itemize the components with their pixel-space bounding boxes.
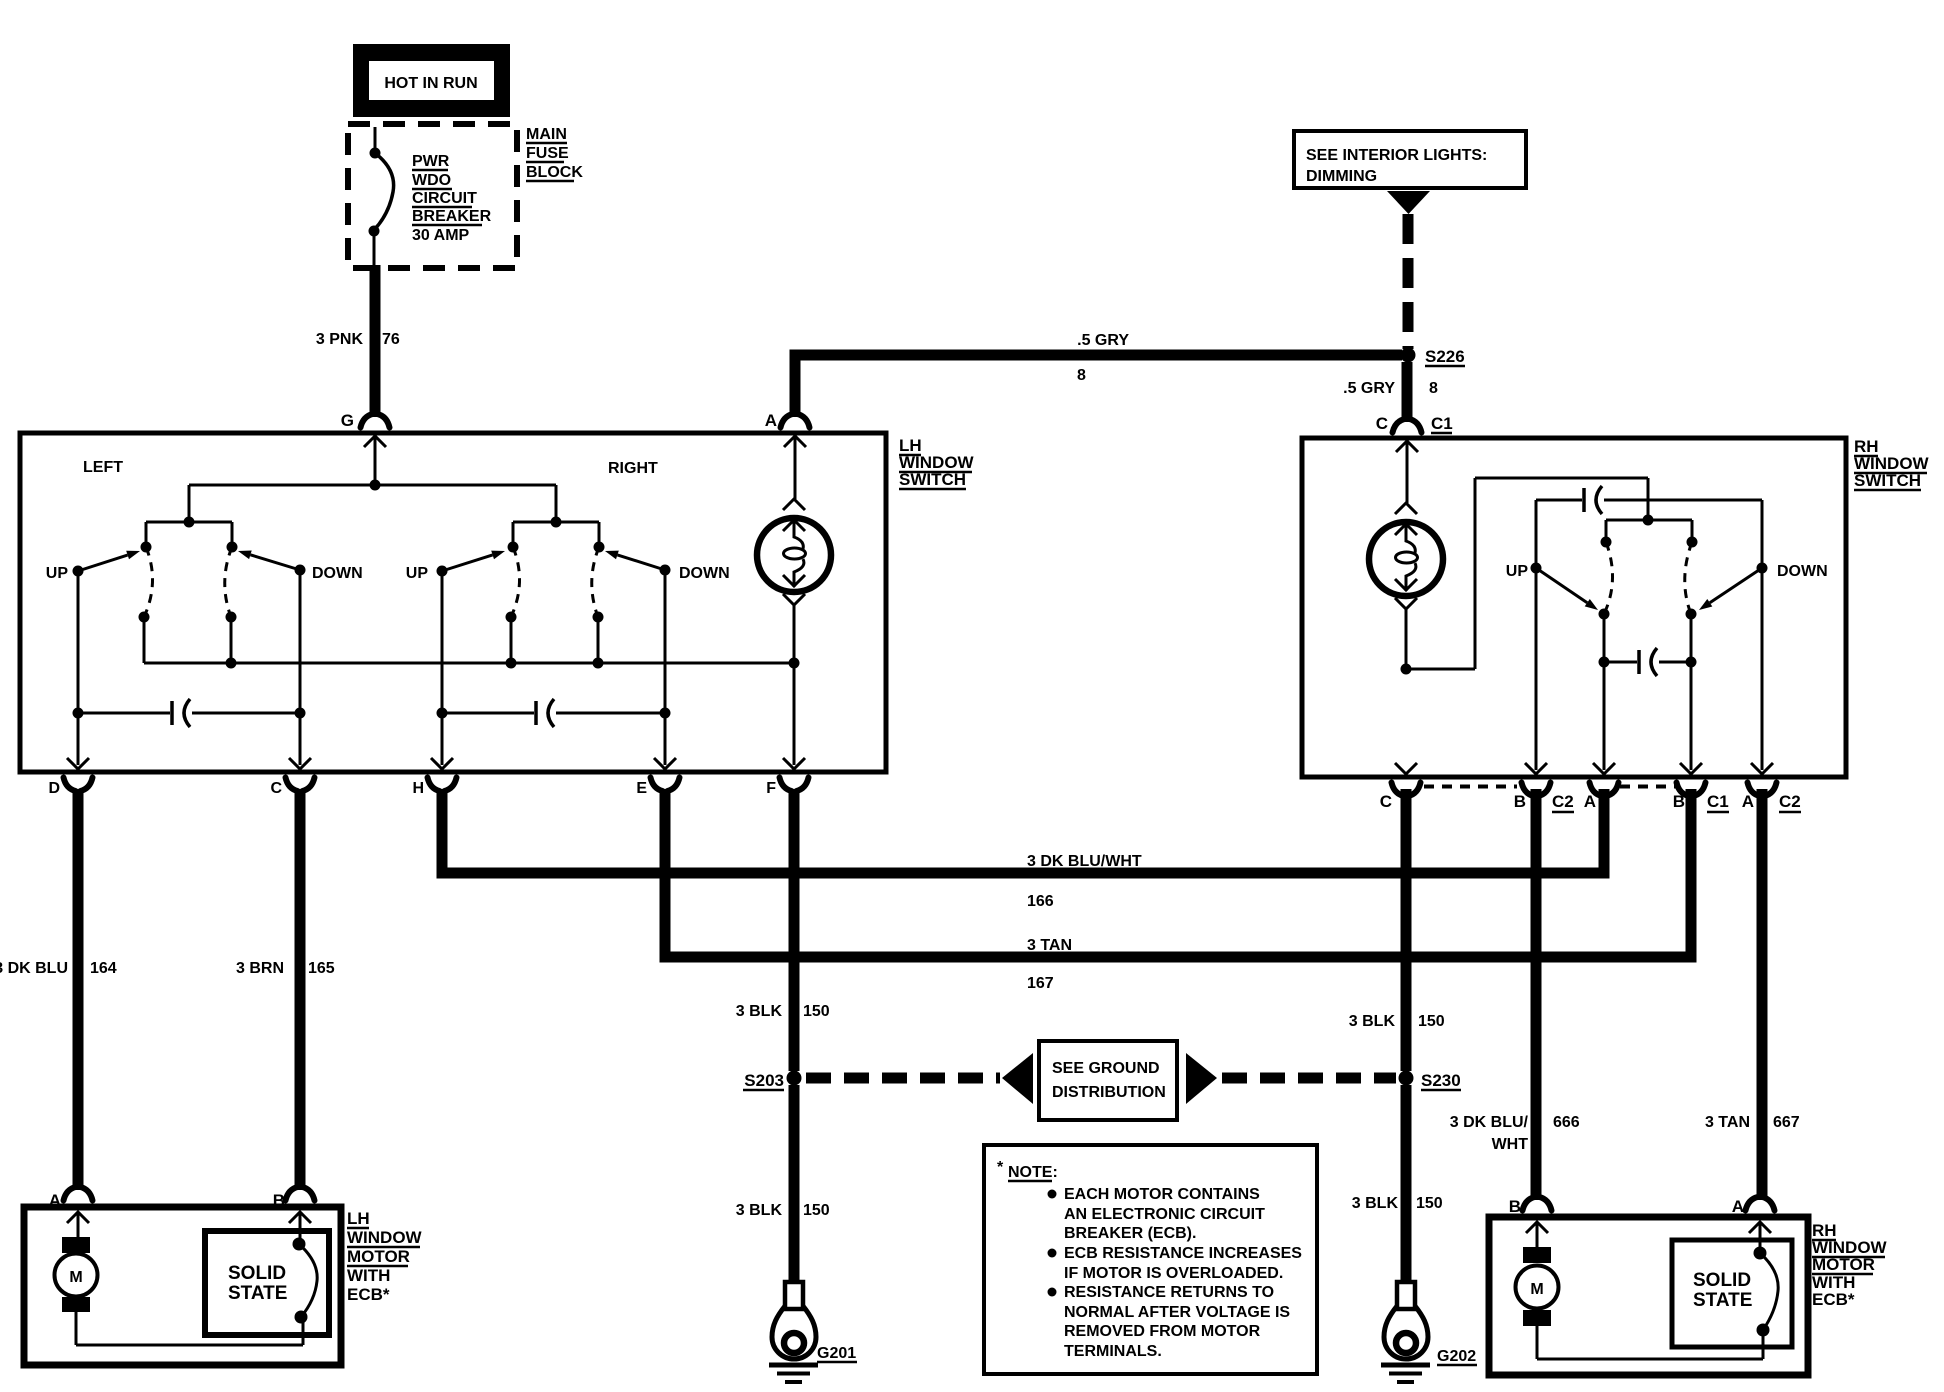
- wire 3 BLK 150 (F to S203): [789, 789, 800, 1071]
- switch RIGHT window (rocker common): [555, 485, 558, 522]
- svg-text:B: B: [1673, 792, 1685, 811]
- ECB breaker arc (LH): [293, 1238, 306, 1251]
- capacitor link (RH upper): [1536, 499, 1582, 502]
- switch LEFT dashed throw (down side): [225, 547, 232, 617]
- svg-text:HOT IN RUN: HOT IN RUN: [384, 75, 477, 92]
- svg-text:A: A: [1584, 792, 1596, 811]
- wire 3 PNK 76: [370, 265, 381, 417]
- wire 3 TAN 167 (E to RH switch B C1): [660, 789, 671, 957]
- svg-text:DOWN: DOWN: [1777, 563, 1828, 580]
- dashed link S203 to ground distribution: [806, 1073, 1000, 1084]
- ground symbol G202: [1381, 1363, 1430, 1368]
- wire 3 DK BLU/WHT 666 (RH switch B C2 to motor B): [1531, 789, 1542, 1200]
- svg-text:IF MOTOR IS OVERLOADED.: IF MOTOR IS OVERLOADED.: [1064, 1265, 1283, 1282]
- switch LEFT dashed throw (up side): [144, 547, 153, 617]
- off-page arrow (left, ground distribution): [1002, 1053, 1033, 1104]
- splice S226: [1401, 348, 1416, 363]
- svg-text:3 BRN: 3 BRN: [236, 960, 284, 977]
- wire: lamp junction to rocker common: [1406, 668, 1475, 671]
- svg-text:EACH MOTOR CONTAINS: EACH MOTOR CONTAINS: [1064, 1186, 1260, 1203]
- svg-text:RESISTANCE RETURNS TO: RESISTANCE RETURNS TO: [1064, 1284, 1274, 1301]
- svg-text:SEE GROUND: SEE GROUND: [1052, 1060, 1160, 1077]
- ECB breaker arc (RH): [1754, 1247, 1767, 1260]
- svg-text:A: A: [765, 411, 777, 430]
- circuit breaker PWR WDO 30 AMP: [374, 127, 377, 148]
- svg-text:BREAKER: BREAKER: [412, 208, 492, 225]
- connector pin A (LH switch): [781, 414, 793, 428]
- svg-text:LH: LH: [347, 1209, 370, 1228]
- wire: internal feed rail: [189, 484, 556, 487]
- splice S230: [1399, 1071, 1414, 1086]
- svg-text:RIGHT: RIGHT: [608, 460, 658, 477]
- svg-text:166: 166: [1027, 893, 1054, 910]
- svg-text:WDO: WDO: [412, 172, 451, 189]
- svg-text:167: 167: [1027, 975, 1054, 992]
- svg-text:UP: UP: [1506, 563, 1529, 580]
- svg-text:S230: S230: [1421, 1071, 1461, 1090]
- svg-text:3 PNK: 3 PNK: [316, 331, 364, 348]
- svg-text:C: C: [1380, 792, 1392, 811]
- svg-text:B: B: [1514, 792, 1526, 811]
- wire: LEFT down-contact to bus: [230, 617, 233, 663]
- svg-text:DIMMING: DIMMING: [1306, 168, 1377, 185]
- wire: DOWN contact column to terminal E: [664, 570, 667, 765]
- svg-text:150: 150: [803, 1202, 830, 1219]
- splice S203: [787, 1071, 802, 1086]
- wire: left contact column to terminal A: [1603, 614, 1606, 770]
- power feed box HOT IN RUN: [353, 44, 510, 117]
- node: lamp junction (RH): [1401, 664, 1412, 675]
- svg-text:TERMINALS.: TERMINALS.: [1064, 1343, 1162, 1360]
- svg-text:3 BLK: 3 BLK: [1349, 1013, 1396, 1030]
- wire 3 DK BLU 164 (D to LH motor A): [73, 789, 84, 1190]
- wire: LEFT up-contact to bus: [143, 617, 146, 663]
- wire: lamp to junction: [1405, 609, 1408, 669]
- svg-text:STATE: STATE: [1693, 1290, 1752, 1311]
- terminal F (LH switch): [783, 758, 805, 769]
- solid state module (LH): [205, 1231, 329, 1335]
- switch RH dashed throw (left): [1604, 542, 1613, 614]
- svg-text:165: 165: [308, 960, 335, 977]
- terminal A (LH motor): [64, 1187, 76, 1201]
- LH window motor box: [24, 1207, 341, 1365]
- svg-text:BLOCK: BLOCK: [526, 164, 583, 181]
- svg-text:DOWN: DOWN: [312, 565, 363, 582]
- svg-text:WHT: WHT: [1492, 1136, 1529, 1153]
- svg-text:D: D: [48, 780, 60, 797]
- wire 3 BLK 150 (S203 to G201): [789, 1085, 800, 1284]
- svg-text:NOTE:: NOTE:: [1008, 1164, 1058, 1181]
- svg-text:F: F: [766, 780, 776, 797]
- terminal H (LH switch): [431, 758, 453, 769]
- svg-text:3 DK BLU/: 3 DK BLU/: [1450, 1114, 1529, 1131]
- wire: right contact column to terminal B C1: [1690, 614, 1693, 770]
- motor M (RH): [1523, 1247, 1551, 1263]
- terminal C (RH switch): [1395, 763, 1417, 774]
- svg-text:S226: S226: [1425, 347, 1465, 366]
- svg-text:3 TAN: 3 TAN: [1705, 1114, 1750, 1131]
- svg-text:3 DK BLU: 3 DK BLU: [0, 960, 68, 977]
- svg-text:SOLID: SOLID: [1693, 1270, 1751, 1291]
- svg-text:3 BLK: 3 BLK: [736, 1003, 783, 1020]
- svg-text:WITH: WITH: [347, 1266, 390, 1285]
- terminal B (LH motor): [286, 1187, 298, 1201]
- wire 3 BRN 165 (C to LH motor B): [295, 789, 306, 1190]
- svg-text:C1: C1: [1707, 792, 1729, 811]
- svg-text:CIRCUIT: CIRCUIT: [412, 190, 477, 207]
- wire 3 TAN 667 (RH switch A C2 to motor A): [1757, 789, 1768, 1200]
- wire 3 DK BLU/WHT 166 (H to RH switch A): [437, 789, 448, 873]
- ground ring terminal G202: [1397, 1282, 1415, 1309]
- svg-text:.5 GRY: .5 GRY: [1077, 332, 1129, 349]
- svg-text:3 TAN: 3 TAN: [1027, 937, 1072, 954]
- svg-text:ECB*: ECB*: [1812, 1290, 1855, 1309]
- terminal D (LH switch): [67, 758, 89, 769]
- svg-text:H: H: [412, 780, 424, 797]
- svg-text:C2: C2: [1779, 792, 1801, 811]
- terminal E (LH switch): [654, 758, 676, 769]
- motor M (LH): [62, 1237, 90, 1253]
- switch RH (rocker common): [1643, 515, 1654, 526]
- solid state module (RH): [1672, 1240, 1792, 1347]
- svg-text:30 AMP: 30 AMP: [412, 227, 470, 244]
- svg-text:ECB*: ECB*: [347, 1285, 390, 1304]
- svg-text:164: 164: [90, 960, 117, 977]
- svg-text:DISTRIBUTION: DISTRIBUTION: [1052, 1084, 1166, 1101]
- svg-text:NORMAL AFTER VOLTAGE IS: NORMAL AFTER VOLTAGE IS: [1064, 1304, 1290, 1321]
- svg-text:3 DK BLU/WHT: 3 DK BLU/WHT: [1027, 853, 1142, 870]
- terminal A (RH switch): [1593, 763, 1615, 774]
- LH window switch box: [20, 433, 886, 772]
- svg-text:G201: G201: [817, 1345, 856, 1362]
- wire .5 GRY 8 (horizontal): [801, 350, 1403, 361]
- reference box SEE INTERIOR LIGHTS DIMMING: [1294, 131, 1526, 188]
- contact UP (LEFT): [73, 566, 84, 577]
- svg-text:M: M: [1530, 1281, 1543, 1298]
- svg-text:G: G: [341, 411, 354, 430]
- note text: [1048, 1190, 1057, 1199]
- svg-text:MAIN: MAIN: [526, 126, 567, 143]
- svg-text:8: 8: [1077, 367, 1086, 384]
- connector pin C / C1 (RH switch top): [1393, 419, 1405, 433]
- switch LEFT window (rocker common): [188, 485, 191, 522]
- contact UP (RIGHT): [437, 566, 448, 577]
- ground ring terminal G201: [785, 1282, 803, 1309]
- svg-text:REMOVED FROM MOTOR: REMOVED FROM MOTOR: [1064, 1323, 1261, 1340]
- off-page arrow (dimming): [1387, 191, 1430, 214]
- wire 3 BLK 150 (RH C to S230): [1401, 789, 1412, 1071]
- svg-text:150: 150: [803, 1003, 830, 1020]
- svg-text:WINDOW: WINDOW: [347, 1228, 423, 1247]
- wire .5 GRY 8 (below splice): [1402, 362, 1413, 422]
- svg-text:B: B: [273, 1191, 285, 1210]
- svg-text:*: *: [997, 1159, 1004, 1176]
- contact DOWN (RH): [1757, 563, 1768, 574]
- capacitor link (RIGHT switch): [442, 712, 534, 715]
- switch RH dashed throw (right): [1685, 542, 1692, 614]
- svg-text:UP: UP: [406, 565, 429, 582]
- terminal C (LH switch): [289, 758, 311, 769]
- contact UP (RH): [1531, 563, 1542, 574]
- svg-text:SEE INTERIOR LIGHTS:: SEE INTERIOR LIGHTS:: [1306, 147, 1487, 164]
- main fuse block (dashed box): [348, 124, 517, 268]
- indicator lamp (RH switch): [1395, 503, 1417, 514]
- svg-text:150: 150: [1418, 1013, 1445, 1030]
- wire: DOWN contact column to terminal C: [299, 570, 302, 765]
- svg-text:B: B: [1509, 1197, 1521, 1216]
- svg-text:C1: C1: [1431, 414, 1453, 433]
- svg-text:MOTOR: MOTOR: [1812, 1255, 1875, 1274]
- svg-text:FUSE: FUSE: [526, 145, 569, 162]
- svg-text:BREAKER (ECB).: BREAKER (ECB).: [1064, 1225, 1196, 1242]
- svg-text:M: M: [69, 1269, 82, 1286]
- svg-text:S203: S203: [744, 1071, 784, 1090]
- dashed connector link A-B (RH): [1620, 785, 1676, 789]
- wire .5 GRY 8 (dashed from dimming): [1403, 214, 1414, 349]
- RH window motor box: [1489, 1217, 1808, 1375]
- dashed connector link C-B (RH): [1424, 785, 1517, 789]
- wire: RH motor return loop: [1536, 1326, 1539, 1359]
- svg-text:8: 8: [1429, 380, 1438, 397]
- wire: UP contact column to terminal D: [77, 571, 80, 765]
- switch RIGHT dashed throw (down side): [592, 547, 599, 617]
- terminal B (RH motor): [1523, 1197, 1535, 1211]
- node: feed junction below G: [370, 480, 381, 491]
- note box: [984, 1145, 1317, 1374]
- svg-text:3 BLK: 3 BLK: [736, 1202, 783, 1219]
- svg-text:667: 667: [1773, 1114, 1800, 1131]
- svg-text:666: 666: [1553, 1114, 1580, 1131]
- svg-text:C: C: [1376, 414, 1388, 433]
- wire: UP contact column to terminal H: [441, 571, 444, 765]
- wire: LH motor return loop: [75, 1312, 78, 1345]
- switch RIGHT dashed throw (up side): [511, 547, 520, 617]
- wire 3 BLK 150 (S230 to G202): [1401, 1085, 1412, 1284]
- terminal A/C2 (RH switch): [1751, 763, 1773, 774]
- wire: UP column to terminal B C2: [1535, 500, 1538, 770]
- svg-text:LEFT: LEFT: [83, 459, 123, 476]
- indicator lamp (LH switch): [783, 499, 805, 510]
- wire: DOWN column to terminal A C2: [1761, 500, 1764, 770]
- terminal A (RH motor): [1746, 1197, 1758, 1211]
- svg-text:A: A: [1742, 792, 1754, 811]
- svg-text:A: A: [1732, 1197, 1744, 1216]
- svg-text:AN ELECTRONIC CIRCUIT: AN ELECTRONIC CIRCUIT: [1064, 1206, 1265, 1223]
- svg-text:UP: UP: [46, 565, 69, 582]
- svg-text:SOLID: SOLID: [228, 1263, 286, 1284]
- svg-text:C: C: [270, 780, 282, 797]
- terminal B/C2 (RH switch): [1525, 763, 1547, 774]
- svg-text:ECB RESISTANCE INCREASES: ECB RESISTANCE INCREASES: [1064, 1245, 1302, 1262]
- contact DOWN (RIGHT): [660, 565, 671, 576]
- contact DOWN (LEFT): [295, 565, 306, 576]
- svg-text:DOWN: DOWN: [679, 565, 730, 582]
- svg-text:E: E: [636, 780, 647, 797]
- svg-text:3 BLK: 3 BLK: [1352, 1195, 1399, 1212]
- connector pin G (LH switch): [361, 414, 373, 428]
- svg-text:PWR: PWR: [412, 153, 450, 170]
- wire: RIGHT down-contact to bus: [597, 617, 600, 663]
- svg-text:.5 GRY: .5 GRY: [1343, 380, 1395, 397]
- svg-text:C2: C2: [1552, 792, 1574, 811]
- wire: lamp to bus to terminal F: [793, 605, 796, 663]
- svg-text:G202: G202: [1437, 1348, 1476, 1365]
- svg-text:STATE: STATE: [228, 1283, 287, 1304]
- svg-text:A: A: [49, 1191, 61, 1210]
- capacitor link (RH lower): [1604, 661, 1637, 664]
- svg-text:76: 76: [382, 331, 400, 348]
- svg-text:SWITCH: SWITCH: [1854, 471, 1921, 490]
- wire: common return bus: [144, 662, 794, 665]
- off-page arrow (right, ground distribution): [1186, 1053, 1217, 1104]
- RH window switch box: [1302, 438, 1846, 777]
- wire: RIGHT up-contact to bus: [510, 617, 513, 663]
- ground symbol G201: [769, 1363, 818, 1368]
- svg-text:MOTOR: MOTOR: [347, 1247, 410, 1266]
- terminal B/C1 (RH switch): [1680, 763, 1702, 774]
- capacitor link (LEFT switch): [78, 712, 170, 715]
- svg-text:SWITCH: SWITCH: [899, 470, 966, 489]
- reference box SEE GROUND DISTRIBUTION: [1039, 1041, 1177, 1120]
- svg-text:150: 150: [1416, 1195, 1443, 1212]
- dashed link ground distribution to S230: [1222, 1073, 1396, 1084]
